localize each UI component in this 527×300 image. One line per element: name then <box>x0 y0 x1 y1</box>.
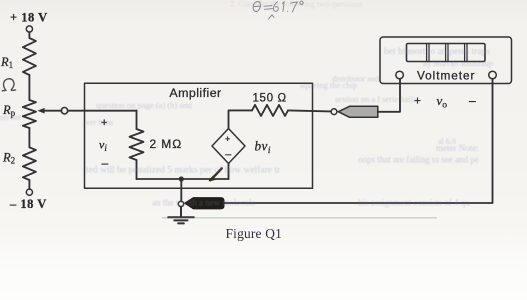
junction ground node <box>179 176 184 181</box>
connector plug black <box>185 198 224 209</box>
node wiper terminal <box>61 108 67 114</box>
svg-text:al 6.0: al 6.0 <box>438 137 456 146</box>
node voltmeter + terminal <box>396 71 404 79</box>
handwritten theta = 61.7 annotation <box>253 1 303 19</box>
svg-text:2 MΩ: 2 MΩ <box>150 137 183 151</box>
wire <box>229 110 253 128</box>
svg-text:vo: vo <box>437 93 448 111</box>
potentiometer Rp <box>23 100 36 128</box>
voltmeter display digit divider 3 <box>465 44 467 62</box>
svg-text:– 18 V: – 18 V <box>9 197 47 211</box>
dependent source U1 bvi <box>212 129 245 164</box>
voltmeter display digit divider 2 <box>446 44 448 62</box>
svg-text:R1: R1 <box>0 55 13 70</box>
node output terminal <box>331 109 337 115</box>
node ground terminal <box>178 201 183 206</box>
wire output <box>288 110 331 111</box>
svg-text:Amplifier: Amplifier <box>169 86 221 100</box>
svg-text:+: + <box>225 134 231 145</box>
svg-text:oops that are failing to see a: oops that are failing to see and pe <box>358 155 479 165</box>
voltmeter display frame <box>407 44 486 62</box>
svg-text:–: – <box>225 149 231 161</box>
connector plug gray <box>338 106 378 117</box>
wire <box>28 180 30 189</box>
svg-text:150 Ω: 150 Ω <box>253 92 287 105</box>
ground <box>168 207 194 224</box>
scan artifact line <box>162 217 437 219</box>
wire wiper to amplifier <box>68 110 137 112</box>
wiper arrow of Rp <box>37 108 61 114</box>
node +18V terminal <box>26 26 32 38</box>
voltmeter display digit divider 1 <box>427 44 429 62</box>
wire to voltmeter + <box>378 79 400 112</box>
resistor 2 Mohm <box>130 129 144 160</box>
svg-text:–: – <box>469 94 476 108</box>
svg-text:vi: vi <box>99 138 107 154</box>
svg-text:ay bilavab anoitzaup: ay bilavab anoitzaup <box>423 58 493 68</box>
svg-text:ver hons: ver hons <box>86 118 113 127</box>
wire bottom rail <box>137 178 229 180</box>
svg-text:ted will be penalized 5 marks: ted will be penalized 5 marks per of how… <box>86 165 281 176</box>
node voltmeter - terminal <box>489 71 497 79</box>
svg-text:question on page (a) (b) and: question on page (a) (b) and <box>96 100 192 110</box>
handwritten ohm annotation <box>2 79 15 91</box>
wire to ground <box>180 179 182 201</box>
svg-text:Voltmeter: Voltmeter <box>417 68 475 82</box>
svg-text:2. Consider the following two: 2. Consider the following two questions <box>230 0 363 9</box>
resistor 150 ohm <box>252 105 288 116</box>
resistor R1 <box>23 38 36 75</box>
svg-text:bet binnort to amperes traps: bet binnort to amperes traps <box>384 47 490 57</box>
resistor R2 <box>23 147 36 180</box>
svg-text:Figure Q1: Figure Q1 <box>226 226 282 241</box>
voltmeter box <box>380 37 512 84</box>
pen mark annotation <box>210 168 222 180</box>
amplifier box <box>85 83 313 188</box>
wire <box>28 128 30 147</box>
wire <box>136 111 138 129</box>
svg-text:no ber: no ber <box>0 112 22 122</box>
svg-text:an the t with a new molecule: an the t with a new molecule <box>152 198 255 208</box>
node -18V terminal <box>26 189 32 195</box>
wire <box>28 75 30 100</box>
wire voltmeter - return <box>224 79 493 203</box>
svg-text:bvi: bvi <box>255 139 271 157</box>
svg-text:+ 18 V: + 18 V <box>10 10 48 24</box>
svg-text:distributor and: distributor and <box>332 75 379 84</box>
svg-text:R2: R2 <box>2 151 15 166</box>
svg-text:sestion on a I serie baila: sestion on a I serie baila <box>335 94 417 104</box>
svg-text:his assignment consists of 4 q: his assignment consists of 4 qu <box>358 198 470 208</box>
scan bleed-through text <box>0 0 493 208</box>
wire <box>136 160 138 179</box>
wire <box>228 164 230 180</box>
